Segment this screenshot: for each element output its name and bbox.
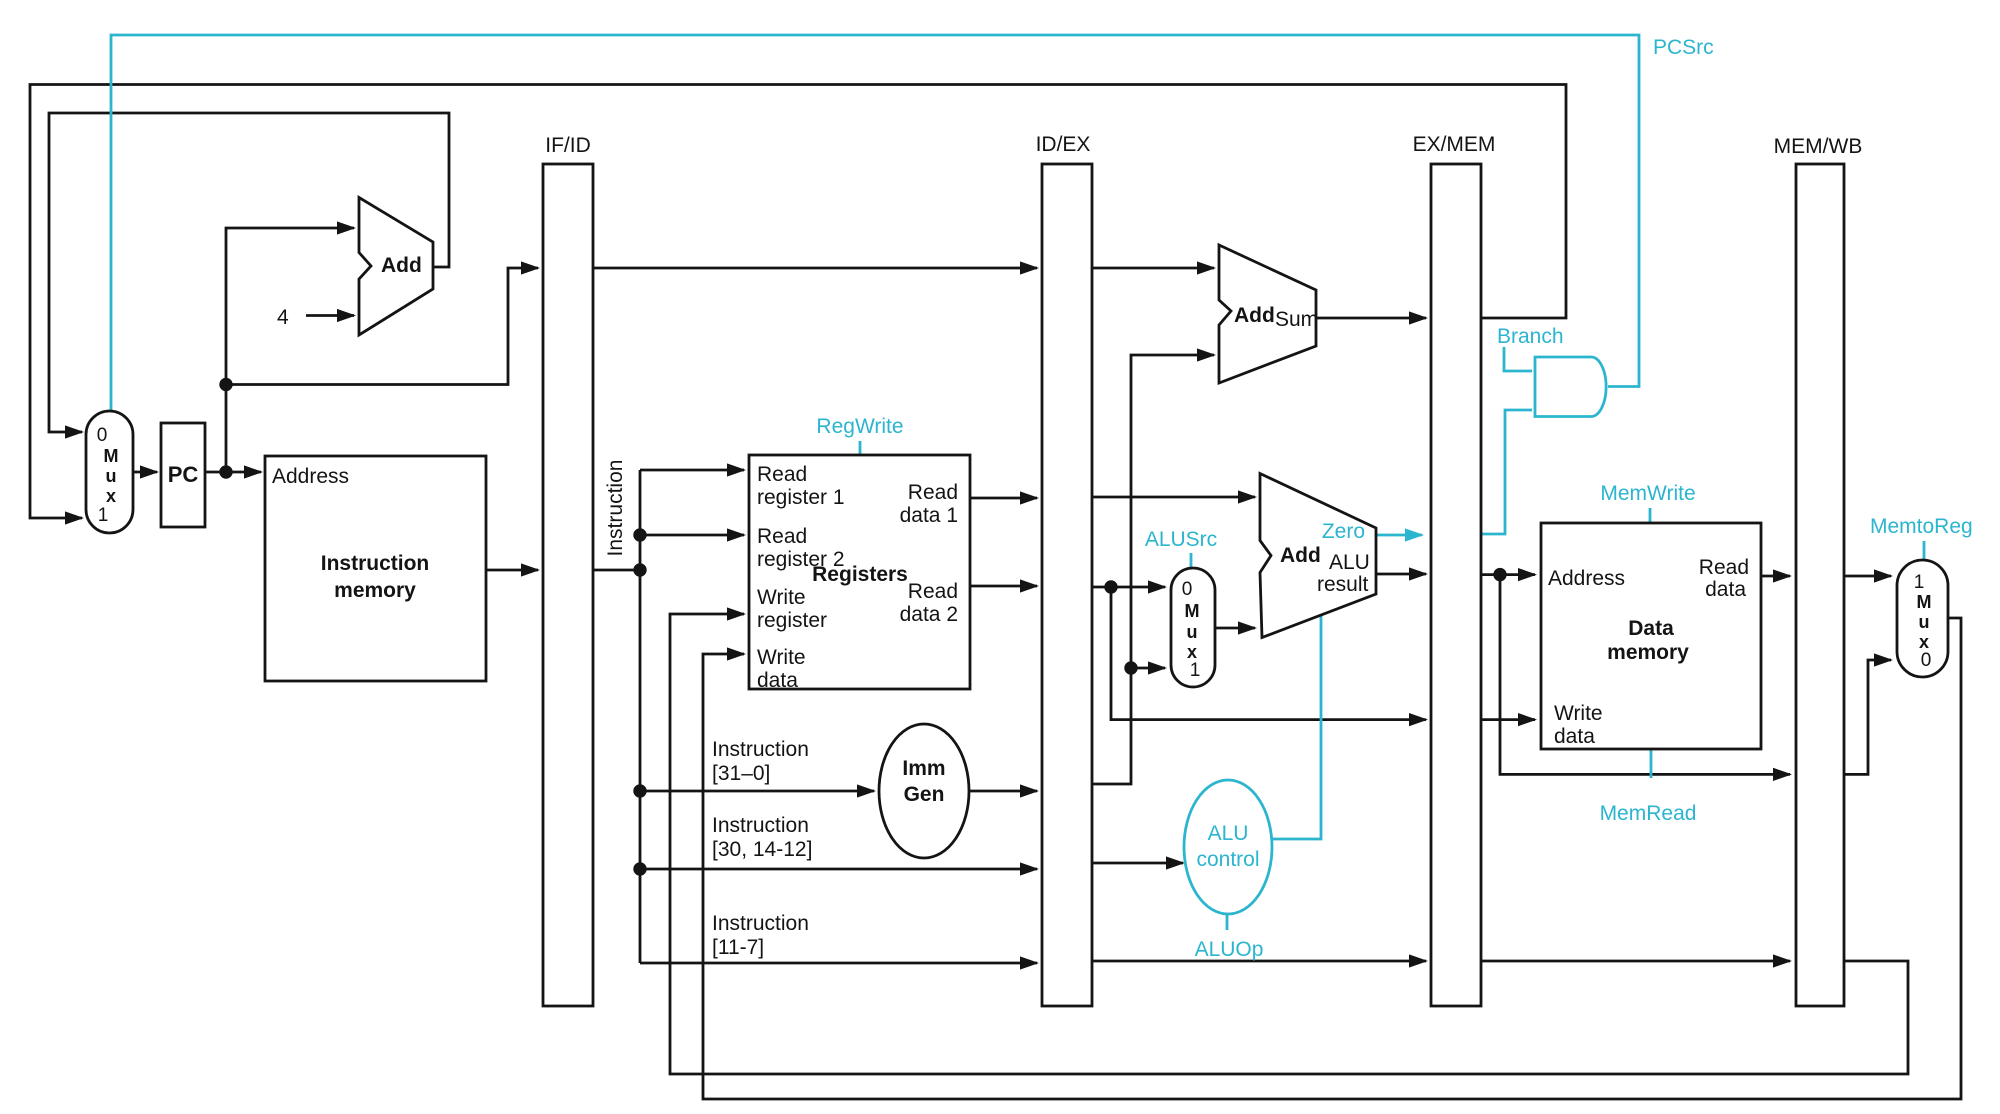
svg-text:RegWrite: RegWrite (816, 415, 903, 438)
Instruction [11-7] label (712, 912, 809, 959)
wire ALU result to MEM/WB (1500, 575, 1792, 781)
svg-text:Instruction: Instruction (712, 814, 809, 837)
svg-text:Add: Add (381, 254, 422, 277)
Instruction [30,14-12] label (712, 814, 812, 861)
MemRead label and tick (1600, 750, 1697, 825)
svg-text:Instruction: Instruction (604, 460, 627, 557)
ALU control U3 (1184, 780, 1272, 914)
mux M3 MemtoReg (1897, 560, 1948, 677)
svg-text:Instruction: Instruction (712, 738, 809, 761)
svg-text:Address: Address (1548, 567, 1625, 590)
svg-text:memory: memory (334, 579, 416, 602)
svg-text:Read: Read (1699, 556, 1749, 579)
Data memory (1541, 523, 1761, 749)
wire instruction bus vertical (639, 470, 642, 963)
wire instruction bus from IF/ID (593, 569, 640, 572)
wire Instruction[11-7] to ID/EX (640, 956, 1039, 969)
pipeline register IF/ID (543, 134, 593, 1006)
svg-text:MemWrite: MemWrite (1600, 482, 1695, 505)
wire ALU result to EX/MEM (1376, 567, 1428, 580)
wire immediate to branch Add input 2 (1092, 348, 1216, 784)
wire Zero from EX/MEM to AND gate (1481, 410, 1532, 534)
svg-text:u: u (1919, 612, 1930, 632)
wire write register number feedback from MEM/WB (670, 607, 1908, 1074)
wire Branch to AND gate (1504, 347, 1532, 371)
svg-text:[31–0]: [31–0] (712, 762, 770, 785)
svg-text:Write: Write (757, 646, 806, 669)
adder Add branch target (1219, 245, 1318, 383)
wire ALUSrc Mux to ALU input 2 (1215, 621, 1257, 634)
wire Read data 2 to ALUSrc Mux input 0 (1092, 580, 1167, 593)
svg-text:data 1: data 1 (900, 504, 958, 527)
svg-text:EX/MEM: EX/MEM (1413, 133, 1496, 156)
svg-text:M: M (1917, 592, 1932, 612)
constant 4 input to Add (277, 306, 356, 329)
svg-text:memory: memory (1607, 641, 1689, 664)
MemtoReg label and tick (1870, 515, 1973, 559)
svg-text:MemRead: MemRead (1600, 802, 1697, 825)
svg-text:x: x (1919, 632, 1929, 652)
Imm Gen (879, 724, 969, 858)
svg-text:ALUSrc: ALUSrc (1145, 528, 1217, 551)
wire MEM/WB ALU result to Mux input 0 (1844, 653, 1893, 774)
svg-text:register: register (757, 609, 827, 632)
junction node instruction bus funct tap (633, 862, 646, 875)
wire PC to IF/ID (226, 261, 540, 384)
Instruction memory (265, 456, 486, 681)
adder Add PC+4 (359, 198, 433, 336)
svg-text:Imm: Imm (902, 757, 945, 780)
wire funct field ID/EX to ALU control (1092, 856, 1185, 869)
pipeline register MEM/WB (1774, 135, 1863, 1006)
junction node PC branch (219, 378, 232, 391)
wire Instruction[30,14-12] to ID/EX (640, 862, 1039, 875)
wire EX/MEM ALU result to Data memory Address (1481, 568, 1537, 581)
svg-text:ALUOp: ALUOp (1195, 938, 1264, 961)
wire Zero from ALU to EX/MEM (1377, 528, 1424, 541)
svg-text:1: 1 (1914, 572, 1925, 593)
wire Mux to PC (133, 465, 159, 478)
svg-text:u: u (106, 466, 117, 486)
svg-text:data: data (757, 669, 798, 692)
wire write data feedback from Mux to Registers (703, 618, 1961, 1099)
svg-text:Add: Add (1280, 544, 1321, 567)
svg-text:[30, 14-12]: [30, 14-12] (712, 838, 812, 861)
svg-text:Write: Write (757, 586, 806, 609)
junction node immediate (1124, 661, 1137, 674)
svg-text:Read: Read (757, 525, 807, 548)
pipeline register EX/MEM (1413, 133, 1496, 1006)
svg-text:Registers: Registers (812, 563, 908, 586)
wire branch target from EX/MEM to Mux input 1 (30, 85, 1566, 525)
junction node instruction bus read reg 2 (633, 528, 646, 541)
ALUSrc label and tick (1145, 528, 1217, 567)
svg-text:M: M (104, 446, 119, 466)
svg-text:4: 4 (277, 306, 289, 329)
mux M2 ALUSrc (1171, 568, 1215, 687)
svg-text:x: x (106, 486, 116, 506)
svg-text:0: 0 (1921, 650, 1932, 671)
svg-text:PCSrc: PCSrc (1653, 36, 1714, 59)
svg-text:u: u (1187, 622, 1198, 642)
wire Data memory Read data to MEM/WB (1761, 569, 1792, 582)
wire ID/EX PC to branch Add input 1 (1092, 261, 1216, 274)
svg-text:Read: Read (908, 580, 958, 603)
svg-text:Instruction: Instruction (712, 912, 809, 935)
svg-text:Branch: Branch (1497, 325, 1564, 348)
svg-text:Sum: Sum (1275, 308, 1318, 331)
wire Read data 1 to ALU input 1 (1092, 490, 1257, 503)
pipeline register ID/EX (1036, 133, 1092, 1006)
mux M1 PC source (86, 411, 133, 533)
svg-text:MemtoReg: MemtoReg (1870, 515, 1973, 538)
wire branch Add Sum to EX/MEM (1316, 311, 1428, 324)
svg-text:Gen: Gen (904, 783, 945, 806)
svg-text:Read: Read (757, 463, 807, 486)
svg-text:register 1: register 1 (757, 486, 845, 509)
svg-text:0: 0 (97, 425, 108, 446)
wire Read data 1 to ID/EX (970, 491, 1039, 504)
Instruction [31-0] label (712, 738, 809, 785)
svg-text:Zero: Zero (1322, 520, 1365, 543)
svg-text:IF/ID: IF/ID (545, 134, 591, 157)
wire PC to Instruction memory Address (205, 465, 263, 478)
svg-text:MEM/WB: MEM/WB (1774, 135, 1863, 158)
Registers block (749, 455, 970, 692)
wire Instruction[11-7] EX/MEM to MEM/WB (1481, 954, 1792, 967)
wire instruction to Read register 1 (640, 463, 746, 476)
wire Read data 2 to ID/EX (970, 579, 1039, 592)
wire immediate to ALUSrc Mux input 1 (1131, 661, 1167, 674)
ALU U2 (1260, 474, 1376, 638)
svg-text:Instruction: Instruction (321, 552, 430, 575)
svg-text:result: result (1317, 573, 1369, 596)
wire Read data 2 to EX/MEM write data (1111, 587, 1428, 726)
wire Instruction[31-0] to Imm Gen (640, 784, 876, 797)
wire PC+4 from Add output to Mux input 0 (49, 113, 449, 439)
svg-text:Add: Add (1234, 304, 1275, 327)
junction node PC output (219, 465, 232, 478)
svg-text:Read: Read (908, 481, 958, 504)
AND gate U1 (1535, 357, 1606, 417)
wire MEM/WB Read data to Mux input 1 (1844, 569, 1893, 582)
junction node ALU result (1493, 568, 1506, 581)
wire PC value IF/ID to ID/EX (593, 261, 1039, 274)
svg-text:1: 1 (1190, 660, 1201, 681)
svg-text:M: M (1185, 601, 1200, 621)
svg-text:0: 0 (1182, 579, 1193, 600)
wire instruction to Read register 2 (640, 528, 746, 541)
svg-text:1: 1 (98, 505, 109, 526)
wire PCSrc from AND gate to Mux select (111, 35, 1639, 410)
ALUOp label and tick (1195, 914, 1264, 961)
svg-text:ALU: ALU (1208, 822, 1249, 845)
junction node instruction bus imm tap (633, 784, 646, 797)
svg-text:control: control (1196, 848, 1259, 871)
svg-text:data: data (1554, 725, 1595, 748)
svg-text:data 2: data 2 (900, 603, 958, 626)
svg-text:Data: Data (1628, 617, 1674, 640)
junction node instruction bus IF/ID tap (633, 563, 646, 576)
wire EX/MEM to Data memory Write data (1481, 713, 1537, 726)
svg-text:Write: Write (1554, 702, 1603, 725)
svg-text:data: data (1705, 578, 1746, 601)
svg-text:PC: PC (168, 462, 199, 487)
svg-text:ID/EX: ID/EX (1036, 133, 1091, 156)
wire Instruction[11-7] ID/EX to EX/MEM (1092, 954, 1428, 967)
MemWrite label and tick (1600, 482, 1695, 522)
svg-text:Address: Address (272, 465, 349, 488)
svg-text:x: x (1187, 642, 1197, 662)
wire Imm Gen to ID/EX (969, 784, 1039, 797)
svg-text:[11-7]: [11-7] (712, 936, 764, 959)
wire Instruction memory to IF/ID (486, 563, 540, 576)
junction node read data 2 (1104, 580, 1117, 593)
svg-text:ALU: ALU (1329, 551, 1370, 574)
wire PC to Add input 1 (226, 221, 356, 472)
RegWrite label and tick (816, 415, 903, 454)
wire ALU control to ALU (1272, 616, 1321, 839)
register PC (161, 423, 205, 527)
